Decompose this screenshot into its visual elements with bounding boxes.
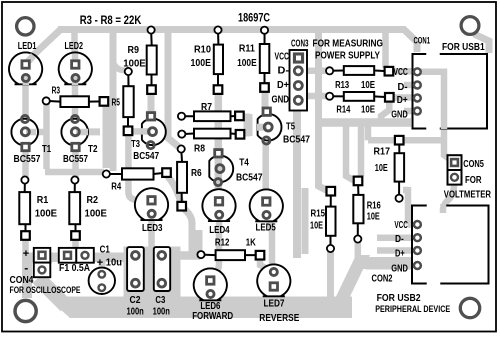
resistor R1 [19, 176, 30, 239]
wire branch to R5 pad [113, 62, 128, 71]
svg-text:GND: GND [391, 264, 408, 275]
fuse F1 [59, 248, 94, 263]
svg-text:1K: 1K [246, 238, 257, 249]
wire LED7 to plane [271, 289, 277, 301]
svg-text:T3: T3 [131, 139, 140, 150]
svg-text:+: + [23, 248, 29, 260]
resistor R13 [326, 66, 393, 75]
wire bus to R6 [168, 33, 180, 148]
svg-text:100E: 100E [191, 58, 212, 69]
svg-text:LED4: LED4 [209, 225, 230, 236]
svg-text:+: + [97, 257, 103, 269]
wire CON3 to R13 [307, 68, 328, 75]
connector CON4 [34, 248, 51, 277]
svg-text:R17: R17 [374, 147, 391, 158]
svg-text:100n: 100n [153, 306, 170, 317]
svg-text:R5: R5 [112, 98, 121, 109]
svg-text:CON3: CON3 [291, 39, 309, 50]
wire second mid col [302, 188, 309, 254]
svg-text:BC557: BC557 [14, 154, 41, 165]
wire R4 to R6 pad [167, 175, 182, 203]
wire bus to VCC pad [382, 31, 389, 68]
svg-text:R9: R9 [128, 45, 140, 56]
wire CON5 to USB2 [443, 184, 454, 212]
svg-text:C2: C2 [130, 295, 141, 306]
svg-text:18697C: 18697C [238, 13, 270, 25]
wire R6 pad down [183, 208, 192, 254]
svg-text:POWER SUPPLY: POWER SUPPLY [315, 51, 380, 62]
wire LED4 to LED6 [212, 219, 219, 276]
hole top-right [461, 17, 479, 35]
wire bus to LED1 [26, 30, 60, 62]
resistor R2 [69, 176, 80, 239]
svg-text:R10: R10 [194, 45, 211, 56]
svg-text:BC557: BC557 [63, 154, 88, 165]
transistor T4 [209, 148, 233, 185]
svg-text:D-: D- [278, 66, 290, 77]
wire R1 to plane [22, 240, 29, 253]
connector CON1 (USB1) [413, 48, 488, 135]
plane CON4/F1 bar [22, 253, 124, 263]
wire CON2 GND link [366, 263, 413, 270]
plane C2C3 block [124, 247, 181, 299]
svg-text:D+: D+ [395, 249, 405, 260]
svg-text:BC547: BC547 [283, 135, 310, 146]
svg-text:LED3: LED3 [142, 223, 163, 234]
svg-text:FOR USB1: FOR USB1 [442, 42, 485, 53]
svg-text:VCC: VCC [275, 52, 290, 63]
svg-text:C3: C3 [155, 295, 165, 306]
wire R11 to T5 [262, 89, 269, 110]
svg-text:R7: R7 [201, 102, 212, 113]
svg-text:BC547: BC547 [133, 151, 159, 162]
svg-text:FOR: FOR [465, 175, 482, 186]
svg-text:10u: 10u [106, 257, 122, 268]
svg-text:R13: R13 [335, 80, 349, 91]
wire USB1 to CON5 [444, 126, 452, 161]
wire VCC to CON1 [390, 68, 413, 75]
wire top right edge [474, 34, 489, 53]
plane bottom band [46, 297, 352, 319]
plane diagonal to CON2 [336, 255, 370, 297]
svg-text:CON5: CON5 [463, 159, 484, 170]
capacitor C2 [127, 247, 144, 291]
svg-text:C1: C1 [100, 245, 111, 256]
connector CON3 [290, 50, 308, 111]
resistor R10 [214, 26, 223, 94]
hole bottom-right [460, 298, 479, 317]
svg-text:D-: D- [395, 234, 404, 245]
wire T1 to R1 [22, 149, 29, 179]
svg-text:LED1: LED1 [18, 41, 37, 52]
wire mid horizontal [318, 118, 411, 127]
resistor R16 [353, 177, 363, 243]
wire R12 to LED7 [260, 258, 271, 271]
resistor R7 [178, 111, 244, 121]
svg-text:GND: GND [272, 95, 290, 106]
wire across to R4 [45, 169, 104, 176]
wire T1 jog [27, 129, 44, 136]
svg-text:T1: T1 [42, 144, 51, 155]
wire R2 to plane [72, 240, 79, 253]
resistor R9 [147, 26, 157, 94]
wire T5 flat link [244, 114, 253, 136]
plane CON4 left drop [22, 255, 32, 298]
svg-text:R11: R11 [239, 44, 255, 55]
hole top-left [17, 18, 34, 35]
resistor R12 [197, 250, 264, 260]
LED LED6 [194, 268, 227, 300]
svg-text:10E: 10E [375, 163, 388, 174]
wire GND stub [404, 108, 413, 115]
wire D- stub [404, 82, 413, 89]
svg-text:LED5: LED5 [256, 223, 277, 234]
svg-text:FOR USB2: FOR USB2 [377, 293, 421, 304]
plane GND patch [358, 257, 413, 269]
wire R9 to T3 [148, 91, 155, 112]
svg-text:LED7: LED7 [264, 299, 285, 310]
svg-text:FOR MEASURING: FOR MEASURING [313, 39, 384, 50]
svg-text:T5: T5 [286, 122, 295, 133]
resistor R4 [103, 168, 171, 179]
svg-text:D+: D+ [277, 80, 289, 91]
svg-text:R12: R12 [215, 238, 230, 249]
svg-text:T2: T2 [88, 144, 98, 155]
wire block to R12 [176, 251, 200, 260]
resistor R17 [395, 136, 405, 202]
svg-text:100n: 100n [127, 306, 144, 317]
resistor R15 [326, 187, 336, 252]
wire LED4 col [196, 230, 203, 254]
wire D+ pad down [381, 100, 389, 123]
svg-text:R4: R4 [111, 182, 121, 193]
svg-text:R15: R15 [311, 209, 326, 220]
svg-text:REVERSE: REVERSE [259, 313, 299, 324]
svg-text:VCC: VCC [393, 67, 408, 78]
wire mid col [358, 124, 365, 176]
connector CON5 [448, 155, 462, 184]
svg-text:-: - [24, 261, 28, 275]
svg-text:CON1: CON1 [414, 36, 431, 46]
svg-text:R14: R14 [336, 105, 350, 116]
transistor T3 [140, 111, 166, 148]
svg-text:D-: D- [398, 82, 408, 93]
wire inside USB1 [420, 72, 444, 128]
wire T2 jog [77, 128, 100, 135]
wire R10 to T4 [215, 91, 223, 199]
wire R3 pad down [43, 103, 50, 169]
svg-text:R8: R8 [194, 144, 205, 155]
capacitor C3 [154, 247, 170, 291]
wire C1 stub [99, 258, 106, 272]
LED LED1 [9, 52, 42, 85]
svg-text:VOLTMETER: VOLTMETER [444, 190, 492, 201]
svg-text:100E: 100E [237, 58, 257, 69]
wire R15 to plane [327, 250, 334, 300]
LED LED2 [59, 52, 92, 85]
wire LED6 to plane [207, 294, 213, 301]
svg-text:10E: 10E [361, 80, 375, 91]
wire bus right end [404, 30, 417, 53]
svg-text:FOR OSCILLOSCOPE: FOR OSCILLOSCOPE [10, 285, 81, 295]
wire to R17 [365, 124, 372, 140]
LED LED4 [202, 189, 235, 221]
wire to R16 [346, 124, 355, 181]
resistor R5 [123, 68, 133, 135]
wire bus to LED2 [71, 30, 78, 62]
wire CON3 to R14 [307, 93, 328, 100]
svg-text:10E: 10E [367, 212, 380, 223]
transistor T2 [61, 115, 88, 152]
wire R3 pad leg [103, 104, 110, 168]
connector CON2 (USB2) [412, 199, 489, 291]
wire CON3 GND down [293, 104, 301, 258]
svg-text:R2: R2 [87, 195, 99, 206]
svg-text:CON2: CON2 [372, 274, 393, 285]
hole bottom-left [15, 300, 36, 321]
wire R16 down [355, 241, 362, 259]
svg-text:FORWARD: FORWARD [192, 311, 233, 322]
wire LED2 to T2 [72, 80, 79, 118]
svg-text:GND: GND [391, 110, 408, 121]
LED LED7 [257, 264, 290, 296]
wire LED1 to T1 [22, 80, 29, 118]
wire R5 pad to T3 [130, 128, 141, 135]
resistor R14 [326, 92, 394, 102]
wire LED3 down [148, 217, 155, 250]
svg-text:R1: R1 [37, 195, 49, 206]
wire bus down left column [110, 30, 117, 171]
LED LED5 [250, 189, 283, 221]
wire T2 to R2 [72, 149, 79, 179]
resistor R11 [260, 27, 270, 92]
svg-text:R6: R6 [191, 168, 202, 179]
svg-text:100E: 100E [85, 209, 108, 220]
svg-text:VCC: VCC [394, 220, 408, 231]
svg-text:D+: D+ [397, 95, 408, 106]
resistor R6 [177, 145, 187, 210]
wire bus down mid column [319, 30, 329, 191]
LED LED3 [135, 188, 168, 220]
wire CON2 D+ stub [377, 247, 413, 254]
wire LED5 to LED7 [267, 218, 272, 270]
svg-text:10E: 10E [361, 105, 375, 116]
wire D+ to CON1 [390, 94, 413, 101]
svg-text:PERIPHERAL DEVICE: PERIPHERAL DEVICE [375, 304, 450, 314]
svg-text:R16: R16 [367, 201, 381, 212]
svg-text:10E: 10E [310, 221, 323, 232]
svg-text:T4: T4 [239, 158, 249, 169]
transistor T1 [11, 115, 38, 152]
wire R17 lower link [403, 187, 408, 194]
svg-text:100E: 100E [123, 59, 146, 70]
resistor R8 [178, 129, 244, 139]
svg-text:F1 0.5A: F1 0.5A [59, 263, 90, 274]
capacitor C1 [89, 268, 115, 294]
wire R5 pad to LED3 [128, 135, 148, 200]
svg-text:100E: 100E [35, 209, 58, 220]
svg-text:R3 - R8 = 22K: R3 - R8 = 22K [80, 15, 142, 27]
wire CON2 D- stub [377, 234, 413, 241]
wire top bus [58, 26, 406, 33]
resistor R3 [43, 96, 109, 107]
wire T5 to LED5 [262, 142, 269, 196]
svg-text:LED2: LED2 [65, 41, 84, 52]
transistor T5 [257, 107, 282, 144]
svg-text:R3: R3 [52, 86, 61, 97]
plane CON4 diagonal [38, 278, 66, 306]
svg-text:BC547: BC547 [236, 173, 263, 184]
